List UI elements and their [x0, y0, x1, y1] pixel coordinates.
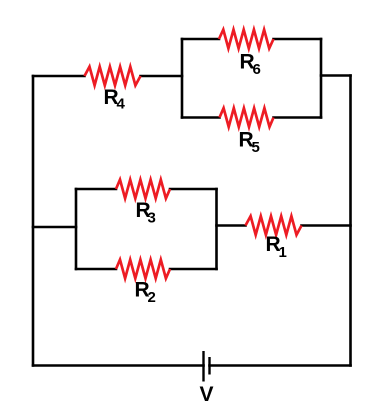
- svg-text:2: 2: [148, 289, 156, 306]
- wire top row left of R4: [33, 75, 85, 78]
- resistor R4: [85, 67, 141, 86]
- wire box2 left vertical: [75, 189, 78, 269]
- wire top branch left of R6: [182, 38, 219, 41]
- wire box1 left vertical: [181, 39, 184, 118]
- wire box2 bottom branch right of R2: [170, 268, 217, 271]
- svg-text:5: 5: [252, 139, 260, 156]
- svg-text:1: 1: [279, 244, 287, 261]
- wire left rail: [32, 76, 35, 366]
- label R6: [240, 50, 261, 78]
- resistor R6: [219, 30, 274, 49]
- wire box1 to right rail: [321, 74, 351, 77]
- wire box2 top branch right of R3: [170, 188, 217, 191]
- wire R4 to parallel box: [141, 75, 183, 78]
- wire box2 right vertical: [215, 189, 218, 269]
- wire box2 top branch left of R3: [76, 188, 116, 191]
- resistor R3: [116, 180, 170, 199]
- label R3: [136, 199, 156, 227]
- label R4: [104, 86, 126, 113]
- label R1: [266, 233, 287, 261]
- wire top branch right of R6: [274, 38, 322, 41]
- wire right rail: [349, 76, 352, 366]
- svg-text:6: 6: [253, 61, 261, 78]
- resistor R1: [246, 216, 302, 235]
- wire R1 to right rail: [302, 224, 351, 227]
- battery V: [204, 351, 210, 382]
- label R5: [239, 128, 260, 156]
- wire box2 to R1: [217, 224, 246, 227]
- svg-text:4: 4: [117, 96, 126, 113]
- wire bottom left of battery: [33, 364, 204, 367]
- resistor R2: [116, 260, 170, 279]
- resistor R5: [220, 108, 274, 127]
- svg-text:3: 3: [148, 210, 156, 227]
- wire box1 right vertical: [320, 39, 323, 118]
- label R2: [135, 278, 156, 306]
- wire bottom right of battery: [210, 364, 351, 367]
- svg-text:V: V: [200, 383, 214, 406]
- wire box2 bottom branch left of R2: [76, 268, 116, 271]
- wire left stub to box2: [33, 226, 76, 229]
- wire bottom branch right of R5: [274, 116, 322, 119]
- wire bottom branch left of R5: [182, 116, 220, 119]
